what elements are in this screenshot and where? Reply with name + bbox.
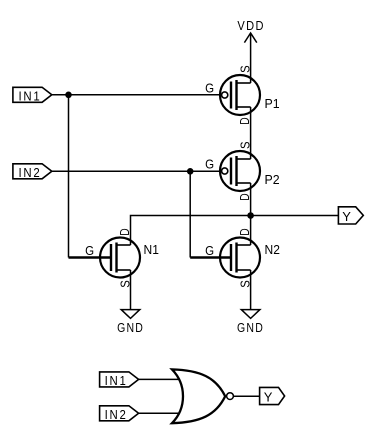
svg-text:Y: Y [264, 389, 273, 404]
svg-text:S: S [237, 65, 252, 73]
svg-text:D: D [237, 228, 252, 235]
svg-text:N1: N1 [144, 242, 159, 257]
svg-text:N2: N2 [265, 242, 280, 257]
svg-text:P1: P1 [265, 96, 280, 111]
svg-text:IN1: IN1 [105, 373, 128, 388]
svg-text:Y: Y [342, 209, 351, 224]
svg-text:G: G [205, 156, 214, 171]
svg-text:D: D [117, 228, 132, 235]
svg-text:D: D [237, 193, 252, 200]
svg-text:S: S [117, 280, 132, 288]
svg-text:S: S [237, 141, 252, 149]
svg-text:VDD: VDD [237, 18, 264, 33]
svg-text:G: G [205, 80, 214, 95]
svg-text:G: G [205, 243, 214, 258]
svg-text:IN2: IN2 [105, 407, 128, 422]
svg-text:IN2: IN2 [19, 165, 42, 180]
svg-text:GND: GND [117, 320, 144, 335]
svg-text:G: G [85, 243, 94, 258]
svg-text:S: S [237, 280, 252, 288]
svg-text:P2: P2 [265, 172, 280, 187]
svg-text:D: D [237, 117, 252, 124]
svg-text:IN1: IN1 [19, 88, 42, 103]
svg-text:GND: GND [237, 320, 264, 335]
